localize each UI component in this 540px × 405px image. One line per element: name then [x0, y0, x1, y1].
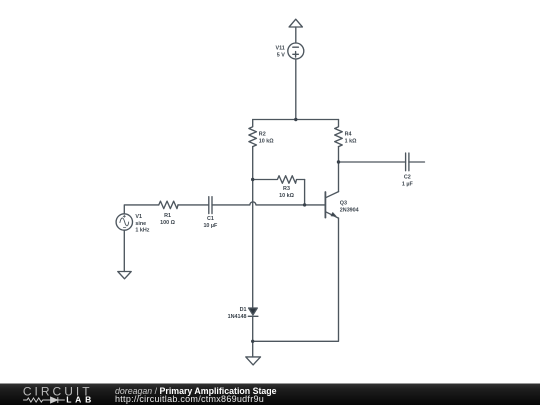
- svg-text:5 V: 5 V: [277, 52, 285, 58]
- svg-text:V1: V1: [135, 214, 142, 220]
- svg-text:1 µF: 1 µF: [402, 181, 414, 187]
- resistor R4: [335, 120, 343, 147]
- wire R2 to R3 node: [252, 147, 254, 180]
- wire V1 to ground: [123, 230, 125, 271]
- ground under V1: [118, 272, 131, 279]
- svg-text:1N4148: 1N4148: [228, 314, 247, 320]
- wire R3 down to base: [304, 180, 306, 205]
- svg-text:2N3904: 2N3904: [340, 207, 359, 213]
- svg-text:C1: C1: [207, 216, 214, 222]
- svg-text:sine: sine: [135, 221, 146, 227]
- wire R3 node to D1: [252, 180, 254, 309]
- power flag VDD arrow: [289, 19, 302, 27]
- svg-text:R1: R1: [164, 213, 171, 219]
- svg-text:10 kΩ: 10 kΩ: [279, 193, 294, 199]
- wire emitter to ground rail: [253, 218, 339, 341]
- svg-text:D1: D1: [240, 307, 247, 313]
- resistor R3: [253, 176, 305, 184]
- svg-text:1 kHz: 1 kHz: [135, 228, 149, 234]
- wire ground node down: [252, 341, 254, 357]
- svg-text:R2: R2: [259, 131, 266, 137]
- svg-text:10 kΩ: 10 kΩ: [259, 138, 274, 144]
- capacitor C1: [209, 197, 212, 214]
- node emitter-ground junction: [251, 340, 254, 343]
- node R3-base junction: [303, 203, 306, 206]
- logo resistor-diode symbol: [23, 397, 65, 403]
- svg-text:Q3: Q3: [340, 200, 347, 206]
- voltage source V11: [288, 43, 304, 59]
- wire V11 to rail: [295, 59, 297, 120]
- wire collector vertical: [338, 162, 340, 192]
- wire R1 to C1: [178, 204, 209, 206]
- source V1: [116, 214, 132, 230]
- node R2-R3 junction: [251, 178, 254, 181]
- wire base: [212, 202, 325, 205]
- node collector junction: [337, 160, 340, 163]
- resistor R2: [249, 120, 257, 147]
- svg-text:R3: R3: [283, 186, 290, 192]
- resistor R1: [159, 201, 178, 209]
- svg-text:V11: V11: [276, 45, 285, 51]
- wire C2 output stub: [409, 161, 425, 163]
- svg-text:100 Ω: 100 Ω: [160, 220, 175, 226]
- capacitor C2: [406, 153, 409, 171]
- node rail-V11 junction: [294, 118, 297, 121]
- wire arrow to V11: [295, 27, 297, 43]
- svg-text:1 kΩ: 1 kΩ: [345, 138, 357, 144]
- wire top rail: [253, 119, 339, 121]
- diode D1: [249, 308, 258, 315]
- svg-text:10 µF: 10 µF: [203, 223, 218, 229]
- svg-text:LAB: LAB: [66, 395, 95, 405]
- transistor Q3: [324, 192, 326, 218]
- footer bar: [0, 384, 540, 405]
- svg-text:C2: C2: [404, 175, 411, 181]
- wire R4 to collector node: [338, 147, 340, 162]
- svg-text:R4: R4: [345, 131, 352, 137]
- wire collector node to C2: [339, 161, 406, 163]
- ground bottom: [246, 357, 261, 365]
- wire V1 to R1: [124, 205, 159, 214]
- svg-text:http://circuitlab.com/ctmx869u: http://circuitlab.com/ctmx869udfr9u: [115, 394, 264, 404]
- wire D1 to ground node: [252, 316, 254, 341]
